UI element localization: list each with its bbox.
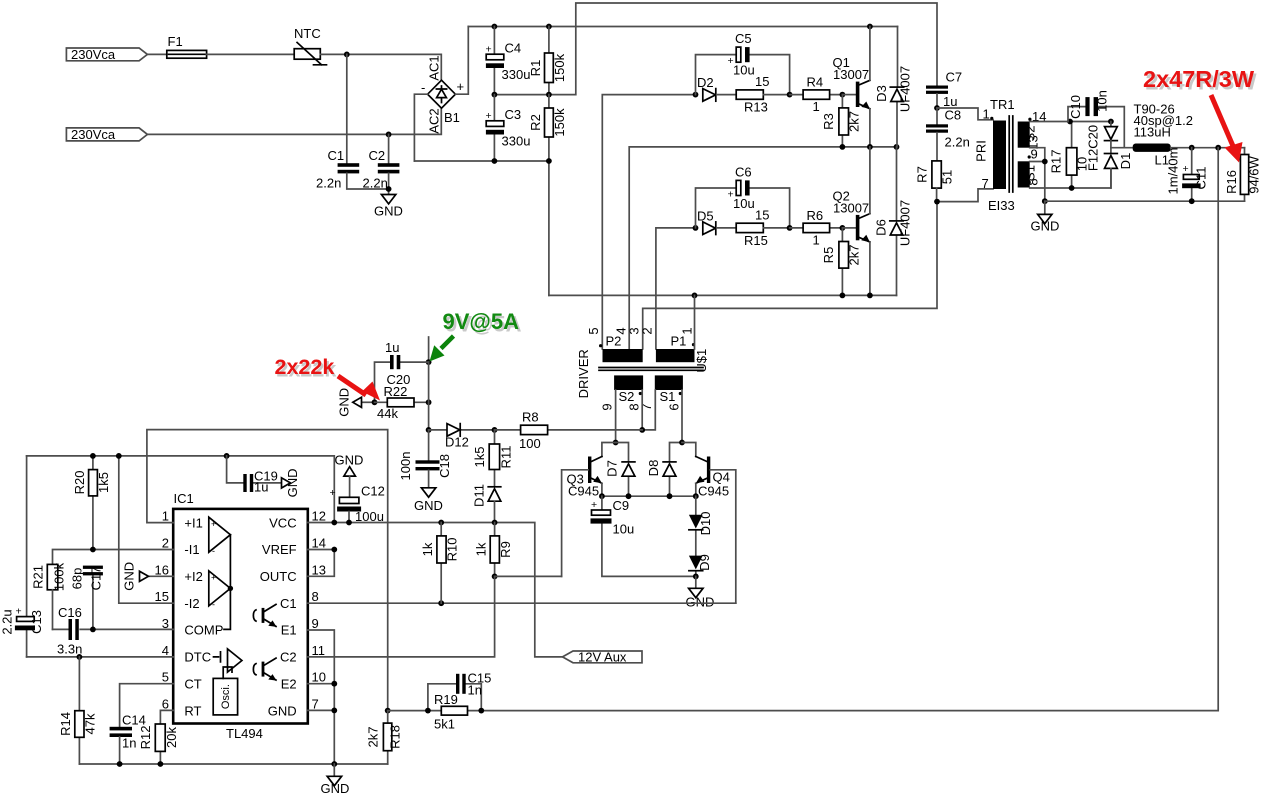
capacitor C16 3.3n (57, 605, 82, 657)
wire pin5 CT (120, 684, 174, 727)
svg-text:7: 7 (639, 403, 654, 410)
node Q3 collector (613, 440, 619, 446)
wire U$1 pin9 to Q3 (615, 390, 617, 443)
capacitor C3 330u (486, 95, 531, 161)
svg-text:AC2: AC2 (427, 108, 442, 133)
transformer TR1 secondary S1 (1018, 147, 1041, 188)
svg-text:D2: D2 (697, 75, 714, 90)
capacitor C7 1u (926, 70, 962, 110)
svg-text:13: 13 (312, 562, 326, 577)
svg-text:1k5: 1k5 (472, 447, 487, 468)
node center tap to gnd rail (1042, 198, 1048, 204)
svg-text:C12: C12 (361, 484, 385, 499)
resistor R19 5k1 (388, 692, 482, 732)
svg-text:C7: C7 (946, 70, 963, 85)
diode D10 (689, 496, 713, 555)
svg-text:13007: 13007 (833, 67, 869, 82)
node return C11 (1189, 198, 1195, 204)
node R19 right (478, 708, 484, 714)
svg-text:9: 9 (312, 616, 319, 631)
svg-text:R5: R5 (821, 247, 836, 264)
svg-text:230Vca: 230Vca (71, 127, 116, 142)
resistor R12 20k (138, 724, 179, 764)
svg-text:VREF: VREF (262, 542, 297, 557)
wire TR1 pin14 to D1 (1030, 121, 1111, 123)
transistor Q3 C945 (562, 443, 616, 577)
capacitor C1 2.2n (316, 148, 359, 191)
svg-text:+: + (330, 487, 336, 499)
svg-text:2k7: 2k7 (847, 245, 862, 266)
node R13/R4 junction (787, 92, 793, 98)
svg-text:CT: CT (184, 676, 201, 691)
node R11 top (492, 427, 498, 433)
wire junction to C1 (346, 54, 348, 163)
svg-text:20k: 20k (164, 727, 179, 748)
wire DRIVER pin2 to D5 anode (656, 228, 696, 349)
wire NTC to bridge AC1 (320, 54, 441, 80)
node R15/R6 junction (787, 225, 793, 231)
node R10 top on VCC (438, 520, 444, 526)
wire TR1 pin7 to bus and DRIVER pin3 (643, 189, 993, 349)
svg-text:12V Aux: 12V Aux (578, 650, 627, 665)
svg-text:Osci.: Osci. (220, 684, 232, 709)
wire lower HV bus (549, 294, 897, 296)
capacitor C13 2.2u (0, 456, 44, 657)
wire DRIVER pin5 to D2 anode (602, 95, 695, 349)
svg-text:D12: D12 (445, 435, 469, 450)
svg-text:U$1: U$1 (694, 349, 709, 373)
svg-text:44k: 44k (377, 406, 398, 421)
svg-text:R17: R17 (1049, 150, 1064, 174)
svg-text:DRIVER: DRIVER (576, 349, 591, 398)
svg-text:UF4007: UF4007 (898, 200, 913, 246)
svg-text:10u: 10u (613, 522, 635, 537)
svg-text:94/6W: 94/6W (1247, 155, 1262, 193)
wire half-bridge midpoint rail (629, 147, 896, 349)
svg-text:+: + (16, 606, 22, 618)
node R22/C20/GND (372, 399, 378, 405)
ground GND under C18 (414, 488, 443, 513)
resistor R18 2k7 (366, 711, 403, 764)
connector 230Vca (line) (66, 47, 147, 62)
node E-chain on ground rail (331, 761, 337, 767)
wire pin14 VREF to pin13 OUTC (308, 550, 335, 577)
capacitor C15 1n (428, 671, 491, 711)
svg-text:1: 1 (813, 233, 820, 248)
ground GND at R22 (337, 388, 375, 417)
svg-text:14: 14 (312, 536, 326, 551)
svg-text:GND: GND (321, 781, 350, 796)
wire pin9 E1 pin10 E2 pin7 GND chain (308, 630, 335, 764)
transistor Q2 13007 (833, 147, 870, 296)
svg-text:VCC: VCC (269, 515, 296, 530)
svg-text:RT: RT (184, 703, 201, 718)
transformer U$1 winding S2 (600, 375, 644, 410)
svg-text:GND: GND (1031, 219, 1060, 234)
svg-text:150k: 150k (552, 53, 567, 82)
svg-text:1k: 1k (420, 542, 435, 556)
svg-text:100: 100 (519, 436, 541, 451)
diode D9 (689, 554, 712, 576)
svg-text:15: 15 (755, 74, 769, 89)
svg-text:D10: D10 (698, 512, 713, 536)
svg-text:R2: R2 (528, 114, 543, 131)
wire pin12 VCC rail to 12V flag (308, 523, 563, 657)
node 9V output (426, 359, 432, 365)
node C15 left (425, 708, 431, 714)
wire bridge minus to neg rail (414, 94, 427, 161)
node C9 top (599, 493, 605, 499)
node feedback divider R19/R18 (385, 708, 391, 714)
node R9/D11 on VCC (492, 520, 498, 526)
svg-text:C11: C11 (1194, 167, 1209, 190)
ground GND above C12 (335, 453, 364, 498)
ground GND under C2 (374, 195, 403, 219)
wire cap midpoint to TR1 via top (494, 3, 937, 95)
wire pin15 -I2 to VCC rail (119, 456, 173, 603)
annotation arrow to R16 (1211, 95, 1243, 163)
resistor R8 100 (495, 410, 643, 452)
wire junction to C2 (388, 134, 390, 163)
node C14 bottom (117, 761, 123, 767)
svg-text:10n: 10n (1095, 90, 1110, 112)
svg-text:9: 9 (600, 403, 615, 410)
svg-text:16: 16 (155, 562, 169, 577)
svg-text:+: + (211, 519, 216, 529)
connector 12V Aux (563, 650, 643, 665)
resistor R22 44k (375, 384, 429, 421)
svg-text:5k1: 5k1 (434, 717, 455, 732)
svg-text:1u: 1u (385, 340, 399, 355)
svg-text:C17: C17 (89, 567, 104, 591)
svg-text:R6: R6 (807, 208, 824, 223)
node Q2 base (840, 225, 846, 231)
wire 230Vca to F1 (147, 53, 166, 55)
wire +HV rail (468, 26, 897, 28)
svg-text:12: 12 (312, 509, 326, 524)
TL494 internal transistor T1 (253, 604, 276, 627)
node D9 bottom / C9 bottom (693, 574, 699, 580)
diode D5 (697, 209, 736, 235)
node neg rail R2 (546, 158, 552, 164)
TL494 internal transistor T2 (253, 658, 276, 681)
svg-text:5: 5 (162, 670, 169, 685)
svg-text:R20: R20 (72, 471, 87, 495)
node output sense (1215, 145, 1221, 151)
resistor R13 15 (736, 74, 789, 115)
thermistor NTC (294, 26, 327, 65)
wire 9V output node stub (428, 337, 430, 362)
capacitor C6 10u (728, 165, 755, 212)
svg-text:113uH: 113uH (1134, 125, 1171, 140)
TL494 pin name labels left (184, 515, 223, 718)
diode D7 (605, 443, 635, 497)
svg-text:C13: C13 (29, 610, 44, 634)
wire pin2 -I1 (53, 550, 174, 564)
svg-text:7: 7 (982, 176, 989, 191)
capacitor C10 10n (1068, 90, 1124, 148)
label U$1 (694, 349, 709, 373)
op-amp U1 TL494 IC1 box (173, 491, 308, 741)
diode D11 (472, 484, 501, 522)
svg-text:1: 1 (680, 327, 695, 334)
svg-text:150k: 150k (552, 108, 567, 137)
TL494 internal oscillator Osci. (213, 667, 237, 715)
svg-text:1u: 1u (254, 480, 268, 495)
ground GND at C19 (282, 468, 301, 497)
annotation 2x22k (275, 355, 337, 382)
svg-text:230Vca: 230Vca (71, 47, 116, 62)
svg-text:+: + (591, 499, 597, 511)
wire pin6 RT (160, 710, 173, 724)
svg-text:+: + (486, 44, 492, 56)
svg-text:R21: R21 (31, 565, 46, 589)
resistor R20 1k5 (72, 456, 111, 550)
svg-text:R19: R19 (434, 692, 458, 707)
svg-text:B1: B1 (444, 110, 460, 125)
svg-text:1: 1 (983, 107, 990, 122)
svg-text:6: 6 (162, 697, 169, 712)
capacitor C19 1u (227, 456, 282, 495)
svg-text:10u: 10u (733, 196, 755, 211)
wire output sense to R19 (481, 148, 1218, 711)
svg-text:1m/40m: 1m/40m (1166, 148, 1181, 195)
capacitor C14 1n (110, 713, 146, 765)
label DRIVER (576, 349, 591, 398)
TL494 internal DTC comparator (214, 649, 242, 672)
node D3/D6 midpoint (894, 144, 900, 150)
svg-text:1n: 1n (468, 683, 482, 698)
svg-text:-: - (212, 600, 215, 610)
transformer U$1 winding S1 (639, 375, 683, 410)
transformer U$1 DRIVER winding P1 (640, 327, 696, 362)
svg-text:-I1: -I1 (184, 542, 199, 557)
svg-text:S1: S1 (660, 389, 676, 404)
svg-text:AC1: AC1 (427, 55, 442, 80)
capacitor C12 100u (330, 484, 385, 525)
wire bottom ground rail (79, 763, 387, 765)
svg-text:PRI: PRI (974, 140, 989, 162)
node R10 bottom (438, 600, 444, 606)
node D8 bottom (667, 493, 673, 499)
svg-text:R1: R1 (528, 60, 543, 77)
resistor R2 150k (528, 95, 567, 161)
svg-text:P1: P1 (671, 334, 687, 349)
svg-text:+: + (486, 110, 492, 122)
capacitor C4 330u (486, 27, 531, 95)
node C17 bottom on COMP (90, 627, 96, 633)
diode D6 UF4007 (874, 147, 913, 296)
node Q2 emitter (867, 293, 873, 299)
node P1 pin1 on bus (692, 293, 698, 299)
svg-text:2k7: 2k7 (847, 111, 862, 132)
TL494 pin name labels right (260, 515, 297, 718)
svg-text:9: 9 (1031, 147, 1038, 162)
node R14 top on DTC (77, 654, 83, 660)
capacitor C5 10u (728, 31, 755, 78)
node Q4 collector (679, 440, 685, 446)
svg-text:1: 1 (813, 99, 820, 114)
wire negative rail to lower bus (414, 161, 549, 295)
svg-text:2.2u: 2.2u (0, 609, 15, 634)
svg-text:C2: C2 (369, 148, 386, 163)
node C7/C8/pin1 (934, 105, 940, 111)
diode D2 (697, 75, 736, 101)
svg-text:R15: R15 (744, 233, 768, 248)
resistor R14 47k (58, 657, 98, 764)
svg-text:R7: R7 (915, 166, 930, 183)
svg-text:S2: S2 (619, 389, 635, 404)
node R22 right (426, 399, 432, 405)
svg-text:7: 7 (312, 697, 319, 712)
svg-text:100k: 100k (52, 562, 67, 591)
wire R9 bottom to Q3 base (495, 575, 562, 577)
svg-text:2.2n: 2.2n (945, 135, 970, 150)
wire pin1 +I1 feedback from R19/R18 (147, 430, 388, 711)
svg-text:C10: C10 (1068, 95, 1083, 119)
ground GND at pin16 (122, 562, 174, 591)
node VCC rail pin15 (116, 453, 122, 459)
node C1/C2 ground junction (386, 186, 392, 192)
capacitor C18 100n (398, 430, 452, 488)
node D12 anode (426, 427, 432, 433)
node Q1 emitter / Q2 collector (867, 144, 873, 150)
node R12 bottom (158, 761, 164, 767)
svg-text:C2: C2 (280, 650, 297, 665)
svg-text:100n: 100n (398, 452, 413, 481)
node C19 corner on VCC (331, 520, 337, 526)
svg-text:9V@5A: 9V@5A (443, 309, 520, 334)
svg-text:+I1: +I1 (184, 515, 202, 530)
svg-text:C4: C4 (505, 41, 522, 56)
node pin8/pin7/R8 (639, 427, 645, 433)
svg-text:EI33: EI33 (988, 198, 1015, 213)
transistor Q4 C945 (682, 443, 736, 604)
wire VCC top rail (27, 456, 335, 523)
resistor R21 100k (31, 562, 67, 629)
svg-text:DTC: DTC (184, 650, 211, 665)
bridge rectifier B1 (421, 55, 464, 133)
TL494 internal error amp 2 (209, 571, 231, 610)
node HV rail Q1 collector (867, 24, 873, 30)
svg-text:+: + (1183, 163, 1189, 175)
svg-text:+: + (457, 79, 465, 94)
svg-text:R4: R4 (807, 75, 824, 90)
svg-text:C16: C16 (58, 605, 82, 620)
resistor R15 15 (736, 208, 789, 249)
svg-text:GND: GND (268, 703, 297, 718)
svg-text:IC1: IC1 (174, 491, 194, 506)
svg-text:D3: D3 (874, 85, 889, 102)
wire C6 bypass loop (696, 188, 790, 228)
transformer TR1 secondary S2 (1018, 109, 1047, 150)
svg-text:2k7: 2k7 (366, 727, 381, 748)
wire TR1 pins13+9 center tap (1030, 148, 1045, 202)
resistor R3 2k7 (821, 95, 862, 147)
wire pin3 COMP (53, 628, 174, 630)
svg-text:GND: GND (122, 562, 137, 591)
svg-text:R8: R8 (522, 410, 539, 425)
node pin14/D1 top (1108, 119, 1114, 125)
ground GND under TR1 (1031, 201, 1060, 233)
node C1 top junction (344, 52, 350, 58)
transformer U$1 core (599, 368, 703, 371)
node Q4 emitter / D10 top (693, 493, 699, 499)
svg-text:10: 10 (312, 670, 326, 685)
wire C1 C2 bottoms (347, 173, 389, 194)
svg-text:C6: C6 (735, 165, 752, 180)
resistor R9 1k (474, 523, 514, 577)
svg-text:TL494: TL494 (226, 726, 263, 741)
svg-text:C14: C14 (122, 713, 146, 728)
svg-text:NTC: NTC (294, 26, 321, 41)
transformer U$1 DRIVER winding P2 (586, 327, 643, 362)
resistor R7 51 (915, 161, 955, 202)
resistor R6 1 (790, 208, 843, 248)
svg-text:GND: GND (686, 595, 715, 610)
svg-text:C1: C1 (280, 596, 297, 611)
diode D3 UF4007 (874, 27, 913, 147)
node R7 bottom / pin7 (934, 199, 940, 205)
diode D12 (429, 424, 495, 450)
node neg rail C3 (492, 158, 498, 164)
node VCC rail R20 (90, 453, 96, 459)
wire 9V node down to D12 row (428, 362, 430, 430)
svg-text:GND: GND (374, 204, 403, 219)
svg-text:4: 4 (162, 643, 169, 658)
svg-text:C5: C5 (735, 31, 752, 46)
svg-text:2x22k: 2x22k (275, 355, 335, 379)
wire pin4 DTC (27, 656, 174, 658)
svg-text:Q4: Q4 (713, 470, 730, 485)
svg-text:15: 15 (755, 208, 769, 223)
capacitor C11 1m/40m (1166, 148, 1209, 202)
resistor R10 1k (420, 523, 460, 604)
svg-text:6: 6 (667, 403, 682, 410)
node Q1 base (840, 92, 846, 98)
wire F1 to NTC (207, 53, 295, 55)
svg-text:D5: D5 (697, 209, 714, 224)
node D5 anode (693, 225, 699, 231)
node C12 on VCC (346, 520, 352, 526)
svg-text:+: + (211, 573, 216, 583)
capacitor C20 1u (375, 340, 429, 402)
node E2 (331, 681, 337, 687)
wire D1 output tap (1111, 147, 1133, 149)
annotation 9V@5A (443, 309, 522, 337)
wire U$1 pin8 to R8 node (641, 390, 643, 430)
svg-text:-: - (421, 80, 425, 95)
svg-text:R12: R12 (138, 726, 153, 750)
svg-text:D7: D7 (605, 460, 620, 477)
svg-text:COMP: COMP (184, 623, 223, 638)
node pin14/R17 (1067, 119, 1073, 125)
svg-text:OUTC: OUTC (260, 569, 297, 584)
svg-text:GND: GND (337, 388, 352, 417)
svg-text:2x47R/3W: 2x47R/3W (1143, 66, 1255, 92)
svg-text:68p: 68p (70, 568, 85, 590)
node midpoint C4/C3 (492, 92, 498, 98)
svg-text:E2: E2 (281, 676, 297, 691)
node output C11 (1189, 145, 1195, 151)
svg-text:-I2: -I2 (184, 596, 199, 611)
annotation arrow to R22 (338, 376, 380, 401)
resistor R1 150k (528, 27, 567, 95)
wire TR1 pin1 (937, 108, 993, 120)
svg-text:D11: D11 (472, 484, 487, 507)
svg-text:R10: R10 (445, 538, 460, 562)
svg-text:GND: GND (285, 468, 300, 497)
